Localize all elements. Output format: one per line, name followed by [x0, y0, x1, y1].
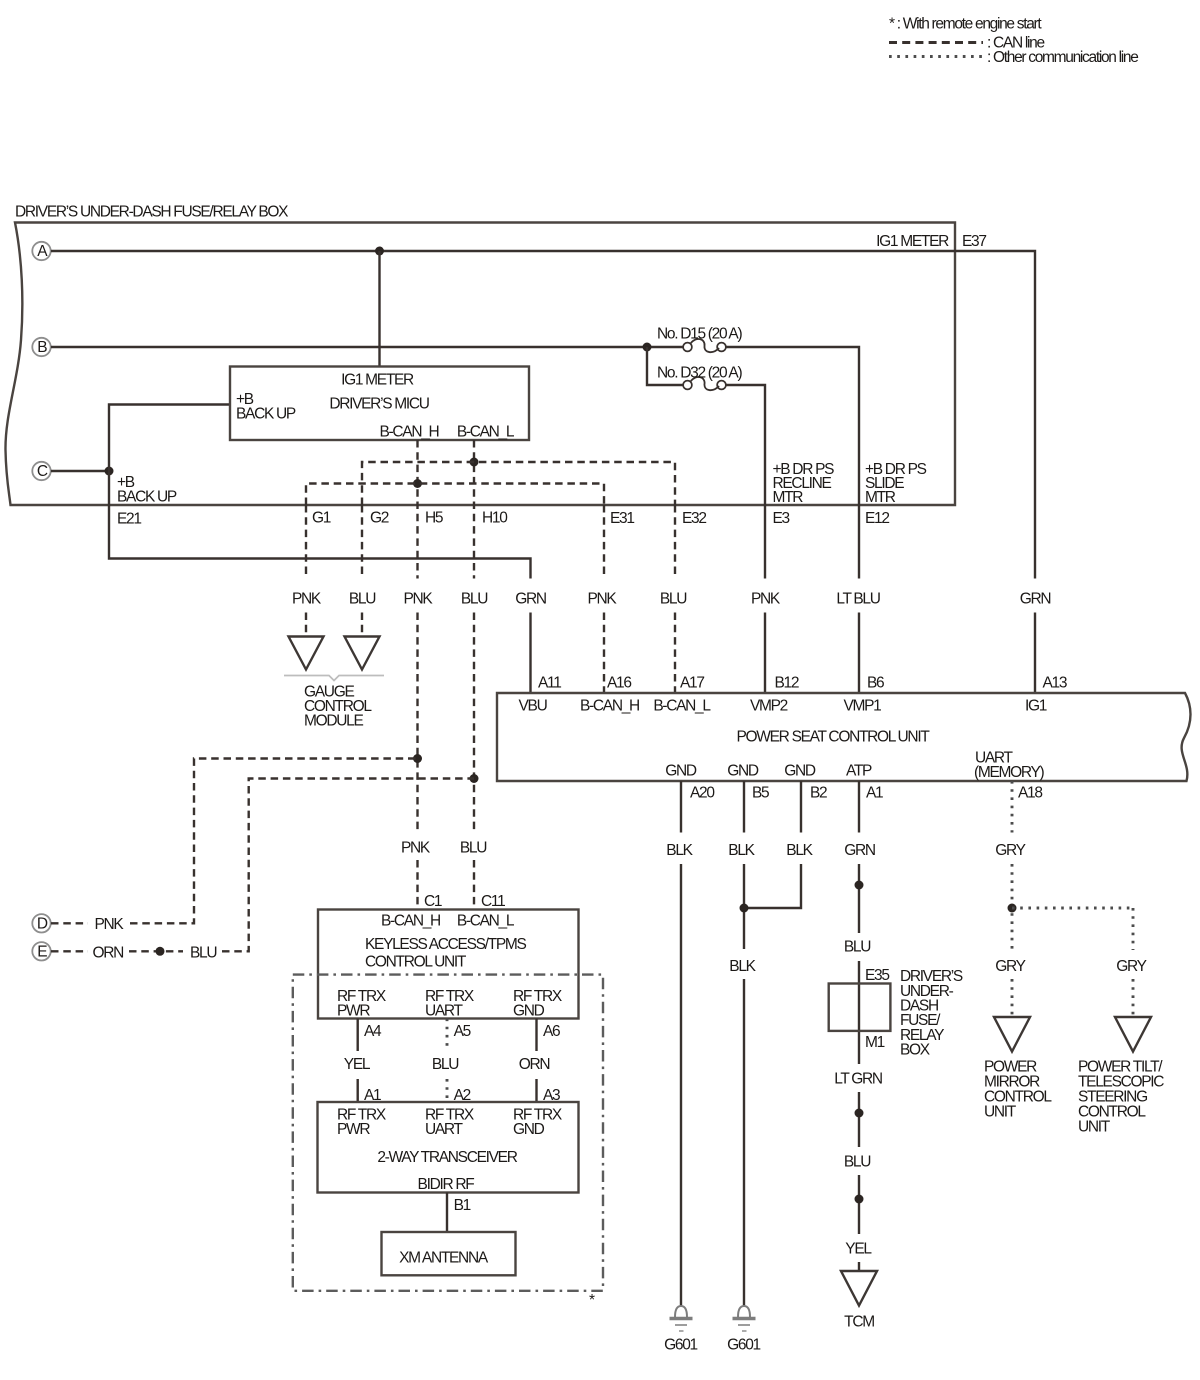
- svg-text:GND: GND: [727, 763, 759, 780]
- svg-text:PNK: PNK: [401, 840, 431, 857]
- label RF TRX UART pin (keyless): [425, 988, 475, 1020]
- svg-text:UNIT: UNIT: [984, 1104, 1017, 1121]
- svg-text:A5: A5: [454, 1023, 471, 1040]
- svg-text:B-CAN_L: B-CAN_L: [457, 424, 515, 441]
- fuse No. D15 (20 A): [683, 339, 726, 352]
- wire: B-CAN_L dashed bus G2 to E32: [362, 462, 675, 505]
- svg-text:C: C: [37, 463, 48, 480]
- svg-text:B12: B12: [775, 675, 799, 692]
- svg-text:LT GRN: LT GRN: [834, 1071, 882, 1088]
- label +B DR PS SLIDE MTR: [865, 461, 927, 506]
- connector arrow to power tilt/telescopic unit: [1115, 1017, 1151, 1052]
- MICU: IG1 METER / DRIVER'S MICU box: [230, 367, 529, 441]
- ground G601 (B5): [733, 1306, 756, 1331]
- svg-text:B-CAN_L: B-CAN_L: [653, 698, 711, 715]
- connector arrow to TCM: [841, 1271, 877, 1306]
- svg-text:A6: A6: [543, 1023, 560, 1040]
- svg-text:G2: G2: [370, 510, 389, 527]
- svg-text:GRY: GRY: [995, 958, 1025, 975]
- svg-text:C1: C1: [424, 893, 442, 910]
- node: ORN/BLU splice on E line: [156, 947, 165, 956]
- svg-text:E21: E21: [117, 511, 141, 528]
- label +B DR PS RECLINE MTR: [773, 461, 835, 506]
- node: junction on B line: [643, 343, 652, 352]
- svg-text:(MEMORY): (MEMORY): [974, 764, 1045, 781]
- node: splice on ATP wire (lower 2): [855, 1195, 864, 1204]
- svg-text:MTR: MTR: [773, 489, 804, 506]
- svg-text:PNK: PNK: [292, 591, 322, 608]
- svg-text:BIDIR RF: BIDIR RF: [418, 1176, 475, 1193]
- POWER SEAT CONTROL UNIT box: [497, 693, 1191, 781]
- svg-text:M1: M1: [865, 1034, 885, 1051]
- svg-text:PNK: PNK: [95, 916, 125, 933]
- label DRIVER'S UNDER-DASH FUSE/RELAY BOX (E35): [900, 968, 963, 1059]
- svg-text:B-CAN_H: B-CAN_H: [580, 698, 639, 715]
- svg-text:H5: H5: [425, 510, 443, 527]
- label UART (MEMORY) pin: [974, 750, 1045, 782]
- wire: G2 dashed drop to gauge module: [361, 505, 363, 637]
- svg-text:: Other communication line: : Other communication line: [987, 49, 1138, 66]
- svg-text:VBU: VBU: [519, 698, 547, 715]
- svg-text:PNK: PNK: [588, 591, 618, 608]
- svg-text:MODULE: MODULE: [304, 713, 363, 730]
- node: B-CAN_L / E-line junction: [470, 774, 479, 783]
- svg-text:B-CAN_H: B-CAN_H: [381, 913, 440, 930]
- svg-text:BLK: BLK: [786, 842, 813, 859]
- svg-text:E3: E3: [773, 510, 790, 527]
- node: splice on ATP wire: [855, 881, 864, 890]
- svg-text:TCM: TCM: [844, 1314, 874, 1331]
- svg-text:E37: E37: [962, 233, 986, 250]
- node: B-CAN_H / D-line junction: [413, 754, 422, 763]
- svg-text:ORN: ORN: [519, 1056, 550, 1073]
- gauge control module bracket: [284, 676, 384, 681]
- wire: D dashed PNK line up to B-CAN_H net: [51, 759, 418, 924]
- wire: GND A20 drop to G601: [680, 781, 682, 1306]
- svg-text:UART: UART: [425, 1121, 464, 1138]
- wire: D32 fuse output to VMP2 B12 drop: [726, 385, 766, 693]
- svg-text:IG1: IG1: [1025, 698, 1047, 715]
- svg-text:PWR: PWR: [337, 1121, 370, 1138]
- label KEYLESS ACCESS/TPMS CONTROL UNIT: [365, 936, 526, 971]
- svg-text:CONTROL UNIT: CONTROL UNIT: [365, 954, 467, 971]
- connector C terminal circle: [32, 462, 50, 480]
- svg-text:A17: A17: [680, 675, 704, 692]
- connector A terminal circle: [32, 242, 50, 260]
- label GAUGE CONTROL MODULE: [304, 684, 372, 730]
- svg-text:G601: G601: [664, 1337, 697, 1354]
- svg-text:E31: E31: [610, 510, 634, 527]
- wire: G1 dashed drop to gauge module: [305, 505, 307, 637]
- node: junction on wire A feeding MICU: [375, 247, 384, 256]
- svg-text:No. D15 (20 A): No. D15 (20 A): [657, 326, 742, 343]
- svg-text:D: D: [37, 915, 48, 932]
- svg-text:E35: E35: [865, 967, 889, 984]
- svg-text:G1: G1: [312, 510, 331, 527]
- svg-text:G601: G601: [727, 1337, 760, 1354]
- wire: B-CAN_H dashed drop from MICU to H5 / C1: [416, 440, 418, 910]
- wire: IG1 METER feed from A to E37 and down to IG1 A13: [51, 251, 1035, 693]
- wire: C to +B BACK UP node: [51, 470, 109, 472]
- wire: GND B2 jog into B5 line: [744, 781, 801, 908]
- label +B BACK UP pin (MICU): [236, 391, 296, 423]
- svg-text:GND: GND: [513, 1003, 545, 1020]
- svg-text:BLK: BLK: [729, 958, 756, 975]
- svg-text:PNK: PNK: [404, 591, 434, 608]
- svg-text:YEL: YEL: [344, 1056, 371, 1073]
- node: junction at C tap: [105, 467, 114, 476]
- svg-text:LT BLU: LT BLU: [836, 591, 879, 608]
- svg-text:B5: B5: [752, 785, 769, 802]
- svg-text:GRY: GRY: [995, 842, 1025, 859]
- svg-text:B-CAN_H: B-CAN_H: [380, 424, 439, 441]
- 2-WAY TRANSCEIVER box: [318, 1102, 579, 1193]
- wire: A4 YEL to transceiver A1: [357, 1019, 359, 1103]
- node: B-CAN_H net junction: [413, 479, 422, 488]
- svg-text:BLU: BLU: [460, 840, 486, 857]
- svg-text:VMP2: VMP2: [750, 698, 788, 715]
- svg-text:B1: B1: [454, 1197, 471, 1214]
- svg-text:UART: UART: [425, 1003, 464, 1020]
- svg-text:DRIVER’S MICU: DRIVER’S MICU: [329, 396, 428, 413]
- node: B2/B5 ground junction: [740, 904, 749, 913]
- svg-text:ATP: ATP: [846, 763, 872, 780]
- svg-text:BLK: BLK: [666, 842, 693, 859]
- XM ANTENNA box: [382, 1232, 516, 1275]
- label RF TRX GND pin (transceiver): [513, 1107, 563, 1139]
- svg-text:BLU: BLU: [461, 591, 487, 608]
- svg-text:DRIVER’S UNDER-DASH FUSE/RELAY: DRIVER’S UNDER-DASH FUSE/RELAY BOX: [15, 204, 289, 221]
- wire: UART A18 dotted drop: [1011, 781, 1014, 1017]
- label RF TRX PWR pin (transceiver): [337, 1107, 387, 1139]
- svg-text:MTR: MTR: [865, 489, 896, 506]
- wire: ATP A1 drop to TCM: [858, 781, 860, 1271]
- svg-text:BOX: BOX: [900, 1042, 931, 1059]
- svg-text:B: B: [37, 339, 47, 356]
- svg-text:PNK: PNK: [751, 591, 781, 608]
- KEYLESS ACCESS/TPMS CONTROL UNIT box: [318, 910, 579, 1019]
- legend other-communication line sample: [889, 55, 983, 58]
- connector B terminal circle: [32, 338, 50, 356]
- label POWER MIRROR CONTROL UNIT: [984, 1059, 1052, 1121]
- svg-text:GRN: GRN: [844, 842, 875, 859]
- svg-text:BACK UP: BACK UP: [236, 406, 296, 423]
- wire: BIDIR RF B1 to XM antenna: [446, 1193, 448, 1233]
- svg-text:KEYLESS ACCESS/TPMS: KEYLESS ACCESS/TPMS: [365, 936, 526, 953]
- legend CAN line sample: [889, 41, 983, 44]
- svg-text:GRN: GRN: [515, 591, 546, 608]
- svg-text:2-WAY TRANSCEIVER: 2-WAY TRANSCEIVER: [377, 1149, 517, 1166]
- label RF TRX PWR pin (keyless): [337, 988, 387, 1020]
- svg-text:A4: A4: [364, 1023, 382, 1040]
- ground G601 (A20): [670, 1306, 693, 1331]
- svg-text:C11: C11: [481, 893, 505, 910]
- svg-text:BLU: BLU: [844, 1154, 870, 1171]
- svg-text:PWR: PWR: [337, 1003, 370, 1020]
- svg-text:B6: B6: [867, 675, 884, 692]
- wire: B-CAN_H dashed bus G1 to E31: [306, 484, 604, 506]
- svg-text:BLU: BLU: [190, 945, 216, 962]
- label +B BACK UP at C: [117, 474, 177, 506]
- svg-text:GRY: GRY: [1116, 958, 1146, 975]
- wire: A6 ORN to transceiver A3: [535, 1019, 537, 1103]
- svg-text:* : With remote engine start: * : With remote engine start: [889, 16, 1042, 33]
- svg-text:GND: GND: [665, 763, 697, 780]
- svg-text:A16: A16: [607, 675, 631, 692]
- svg-text:GND: GND: [513, 1121, 545, 1138]
- node: UART branch junction: [1008, 904, 1017, 913]
- svg-text:A1: A1: [866, 785, 883, 802]
- label RF TRX GND pin (keyless): [513, 988, 563, 1020]
- svg-text:B-CAN_L: B-CAN_L: [457, 913, 515, 930]
- E35 pass-through box (driver's under-dash fuse/relay box): [829, 984, 891, 1031]
- connector D terminal circle: [32, 914, 50, 932]
- svg-text:XM ANTENNA: XM ANTENNA: [399, 1250, 489, 1267]
- connector arrow to gauge control module (BLU): [345, 637, 380, 670]
- wire: drop from A-line into MICU IG1 METER pin: [378, 251, 380, 367]
- svg-text:VMP1: VMP1: [843, 698, 881, 715]
- svg-text:BLU: BLU: [432, 1056, 458, 1073]
- svg-text:E12: E12: [865, 510, 889, 527]
- svg-text:A18: A18: [1018, 785, 1042, 802]
- connector arrow to gauge control module (PNK): [289, 637, 324, 670]
- svg-text:A20: A20: [690, 785, 715, 802]
- wire: B-CAN_L dashed drop from MICU to H10 / C11: [473, 440, 475, 910]
- wire: E31 dashed drop to B-CAN_H A16: [603, 505, 605, 693]
- svg-text:A11: A11: [538, 675, 561, 692]
- svg-text:B2: B2: [810, 785, 827, 802]
- wire: branch from B junction down to fuse D32: [647, 347, 684, 385]
- svg-text:BLK: BLK: [728, 842, 755, 859]
- svg-text:BLU: BLU: [844, 939, 870, 956]
- wire: +B BACK UP riser into MICU and down through E21: [109, 405, 531, 694]
- wire: A5 BLU dotted UART to transceiver A2: [446, 1019, 449, 1103]
- svg-text:POWER SEAT CONTROL UNIT: POWER SEAT CONTROL UNIT: [737, 729, 931, 746]
- node: B-CAN_L net junction: [470, 458, 479, 467]
- wire: B feed line to fuse D15: [51, 346, 684, 348]
- svg-text:ORN: ORN: [93, 945, 124, 962]
- wire: D15 fuse output to VMP1 B6 drop: [726, 347, 860, 693]
- svg-text:No. D32 (20 A): No. D32 (20 A): [657, 365, 742, 382]
- svg-text:BLU: BLU: [660, 591, 686, 608]
- fuse No. D32 (20 A): [683, 377, 726, 390]
- svg-text:GRN: GRN: [1020, 591, 1051, 608]
- wire: E dashed ORN/BLU line up to B-CAN_L net: [51, 779, 474, 952]
- svg-text:IG1 METER: IG1 METER: [341, 372, 414, 389]
- svg-text:BACK UP: BACK UP: [117, 489, 177, 506]
- svg-text:E: E: [37, 943, 47, 960]
- driver's under-dash fuse/relay box outline: [5, 223, 955, 506]
- svg-text:E32: E32: [682, 510, 706, 527]
- wire: GND B5 drop to G601: [743, 781, 745, 1306]
- wire: E32 dashed drop to B-CAN_L A17: [674, 505, 676, 693]
- label RF TRX UART pin (transceiver): [425, 1107, 475, 1139]
- svg-text:UNIT: UNIT: [1078, 1119, 1111, 1136]
- connector E terminal circle: [32, 942, 50, 960]
- connector arrow to power mirror control unit: [994, 1017, 1030, 1052]
- node: splice on ATP wire (lower 1): [855, 1109, 864, 1118]
- svg-text:IG1 METER: IG1 METER: [876, 233, 949, 250]
- wire: dotted branch to power tilt unit: [1012, 908, 1133, 1017]
- dash-dot remote-start option box: [293, 975, 603, 1291]
- svg-text:YEL: YEL: [845, 1241, 872, 1258]
- svg-text:A13: A13: [1043, 675, 1067, 692]
- svg-text:H10: H10: [482, 510, 508, 527]
- svg-text:BLU: BLU: [349, 591, 375, 608]
- label POWER TILT/TELESCOPIC STEERING CONTROL UNIT: [1078, 1059, 1164, 1136]
- svg-text:GND: GND: [784, 763, 816, 780]
